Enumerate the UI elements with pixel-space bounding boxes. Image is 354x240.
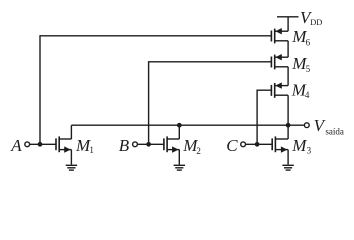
- label M2: [182, 136, 201, 156]
- svg-text:C: C: [226, 136, 238, 155]
- ground under M1: [66, 165, 77, 170]
- input terminal C: [241, 142, 246, 147]
- svg-text:5: 5: [306, 64, 311, 74]
- node C junction: [255, 142, 260, 147]
- transistor M6 (PMOS): [271, 28, 288, 43]
- input terminal A: [25, 142, 30, 147]
- wire M5 drain to M4 source: [287, 67, 289, 86]
- label M6: [291, 27, 310, 47]
- wire M1 source to ground: [70, 150, 72, 165]
- label M1: [75, 136, 94, 155]
- label M3: [291, 136, 311, 156]
- wire VDD to M6 source: [287, 17, 289, 31]
- svg-text:DD: DD: [310, 18, 322, 27]
- transistor M1 (NMOS): [56, 136, 71, 152]
- svg-text:B: B: [119, 136, 130, 155]
- wire C to M3 gate: [246, 143, 273, 145]
- transistor M4 (PMOS): [271, 82, 288, 97]
- label Vsaida: [314, 116, 344, 137]
- node rail-M2 junction: [177, 123, 182, 128]
- node B junction: [146, 142, 151, 147]
- svg-text:saída: saída: [325, 127, 344, 137]
- svg-text:A: A: [10, 136, 22, 155]
- ground under M2: [174, 165, 185, 170]
- wire M2 source to ground: [178, 150, 180, 165]
- transistor M3 (NMOS): [272, 136, 288, 152]
- svg-text:M: M: [291, 136, 307, 155]
- svg-text:6: 6: [306, 37, 311, 47]
- wire M6 drain to M5 source: [287, 41, 289, 57]
- wire gate line M4 to node C: [257, 90, 271, 144]
- node A junction: [38, 142, 43, 147]
- wire M1 drain to rail: [70, 125, 72, 139]
- wire A to M1 gate: [30, 143, 56, 145]
- output terminal Vsaida: [304, 123, 309, 128]
- label M5: [291, 54, 310, 74]
- power VDD tick: [277, 16, 299, 18]
- svg-text:3: 3: [307, 146, 312, 156]
- label VDD: [300, 8, 322, 27]
- svg-text:2: 2: [196, 146, 201, 156]
- wire M3 drain to rail: [287, 125, 289, 139]
- ground under M3: [282, 165, 293, 170]
- node rail-M3/M4 junction: [286, 123, 291, 128]
- label M4: [291, 80, 310, 100]
- svg-text:1: 1: [89, 145, 94, 155]
- wire gate line M6 to node A: [40, 36, 271, 145]
- transistor M5 (PMOS): [271, 54, 288, 69]
- input terminal B: [133, 142, 138, 147]
- transistor M2 (NMOS): [164, 136, 179, 152]
- wire M2 drain to rail: [178, 125, 180, 139]
- wire M4 drain to output rail: [287, 95, 289, 125]
- wire B to M2 gate: [138, 143, 164, 145]
- svg-text:4: 4: [305, 90, 310, 100]
- wire output rail: [71, 124, 304, 126]
- wire gate line M5 to node B: [149, 62, 272, 145]
- wire M3 source to ground: [287, 150, 289, 165]
